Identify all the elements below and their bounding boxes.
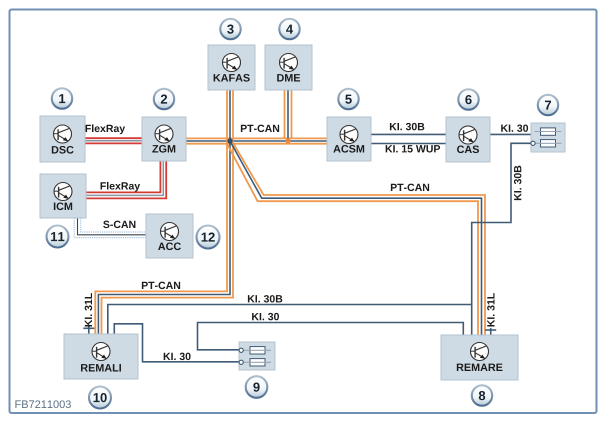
label FlexRay ICM-ZGM: [101, 182, 141, 192]
callout 11 digits: [51, 232, 64, 241]
control unit ACC: [146, 214, 193, 258]
callout 5 digit: [345, 95, 351, 104]
callout 8 digit: [479, 391, 485, 400]
label DSC: [52, 146, 74, 154]
wire PT-CAN main ZGM-ACSM: [186, 138, 327, 143]
label KI. 15 WUP: [386, 145, 440, 152]
label CAS: [457, 145, 479, 153]
label KI. 30 upper-bottom: [252, 313, 279, 320]
callout 12: [197, 226, 220, 249]
wire KI. 30B fusebox7 to REMARE: [472, 143, 534, 335]
wire KI. 31L terminal REMALI: [83, 327, 94, 335]
callout 2 digit: [161, 95, 167, 104]
control unit REMALI: [64, 334, 138, 379]
callout 6: [458, 89, 478, 109]
control unit DME: [265, 45, 312, 90]
label KI. 31L REMALI: [85, 293, 92, 326]
wire PT-CAN KAFAS drop down to REMALI: [95, 90, 233, 334]
label S-CAN: [103, 221, 135, 228]
control unit REMARE: [441, 335, 518, 380]
label KI. 31L REMARE: [487, 293, 494, 326]
fuse box 9: [239, 342, 275, 370]
node PT-CAN junction at DME: [285, 138, 290, 143]
node PT-CAN junction at ZGM/KAFAS: [227, 138, 232, 143]
wire KI. 30 CAS-fusebox7: [490, 133, 531, 135]
callout 9 digit: [253, 383, 259, 392]
label KI. 30 CAS-fuse7: [501, 124, 528, 131]
wire FlexRay DSC-ZGM (red pair): [85, 138, 142, 143]
wire KI. 30 REMALI-fusebox9: [114, 324, 240, 362]
fuse box 7: [531, 123, 565, 152]
control unit ACSM: [327, 117, 371, 161]
control unit DSC: [40, 116, 85, 162]
control unit ICM: [40, 174, 86, 218]
wire KI. 30B ACSM-CAS: [371, 133, 446, 135]
wire PT-CAN DME drop: [285, 90, 292, 141]
label PT-CAN top: [241, 125, 279, 132]
callout 10 digits: [94, 393, 107, 402]
control unit ZGM: [142, 117, 186, 161]
callout 3 digit: [227, 25, 233, 34]
label KI. 30 REMALI-fuse9: [164, 353, 191, 360]
wire KI. 30 REMARE-fusebox9: [198, 323, 464, 350]
wire PT-CAN branch junction to REMARE: [227, 142, 485, 335]
control unit KAFAS: [208, 45, 255, 90]
callout 11: [47, 226, 69, 248]
label FlexRay DSC-ZGM: [86, 124, 126, 134]
callout 7: [538, 95, 558, 115]
label KI. 30B vertical: [514, 166, 521, 200]
wire KI. 15 WUP ACSM-CAS: [371, 143, 446, 145]
label DME: [277, 74, 300, 81]
label KI. 30B ACSM-CAS: [390, 123, 424, 130]
label KI. 30B lower: [248, 295, 282, 302]
callout 4: [279, 19, 299, 39]
callout 1 digit: [59, 94, 65, 103]
label ACC: [158, 242, 181, 250]
callout 12 digits: [202, 233, 215, 242]
callout 9: [246, 376, 268, 398]
label REMARE: [457, 364, 503, 371]
wire KI. 30B REMALI-REMARE: [108, 305, 472, 335]
callout 7 digit: [545, 101, 551, 110]
wire FlexRay ICM-ZGM (red pair): [86, 161, 166, 198]
callout 8: [472, 385, 492, 405]
callout 5: [338, 89, 358, 109]
label KAFAS: [214, 74, 250, 82]
wire S-CAN ICM-ACC: [74, 218, 146, 238]
label PT-CAN middle: [391, 184, 429, 191]
wire KI. 31L terminal REMARE: [485, 328, 496, 335]
callout 2: [154, 89, 174, 109]
callout 10: [89, 387, 111, 409]
label REMALI: [81, 364, 121, 371]
callout 6 digit: [465, 95, 471, 104]
callout 3: [220, 19, 240, 39]
label FB7211003: [15, 400, 70, 408]
label ACSM: [333, 145, 364, 153]
label ICM: [54, 202, 72, 210]
control unit CAS: [446, 117, 490, 162]
label PT-CAN lower left: [142, 282, 180, 289]
label ZGM: [152, 145, 175, 153]
callout 1: [52, 88, 72, 108]
callout 4 digit: [286, 25, 293, 34]
